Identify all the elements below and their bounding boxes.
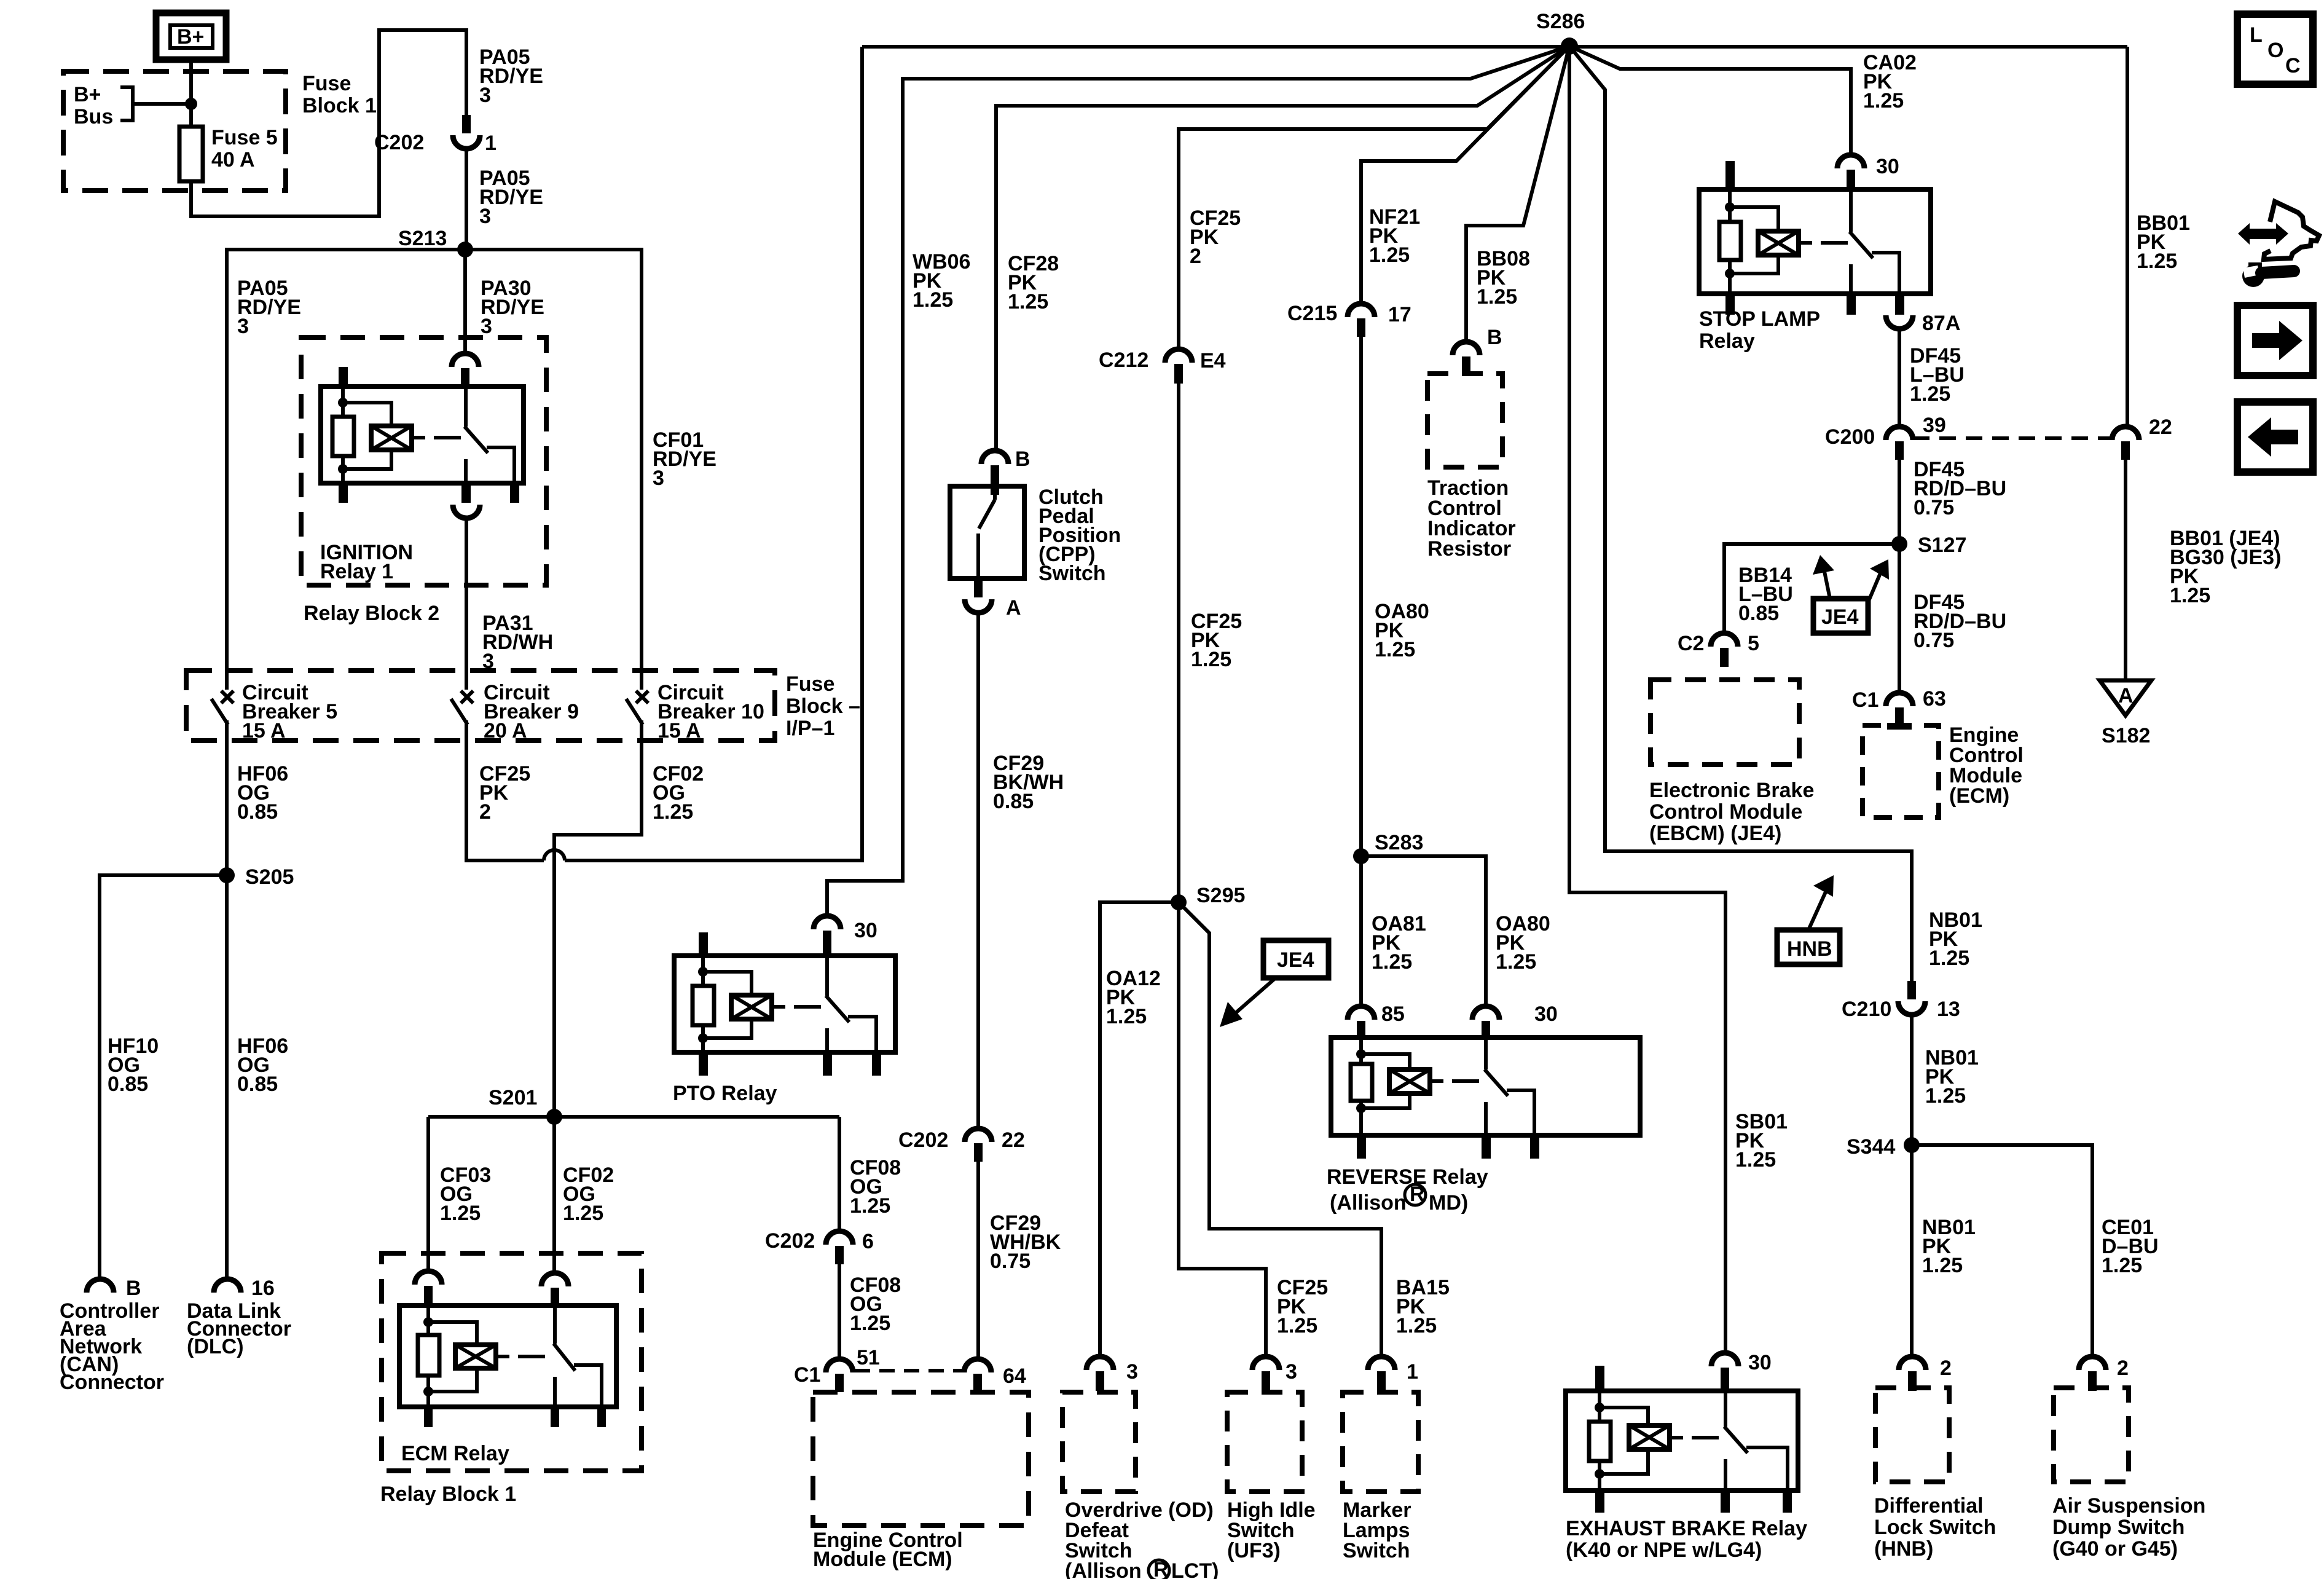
label CF25 PK 2 — [1190, 207, 1241, 268]
fuse F5 — [179, 127, 203, 181]
svg-text:2: 2 — [2117, 1357, 2129, 1380]
svg-text:2: 2 — [479, 800, 491, 824]
wire DF45 C200 to S127 — [1898, 460, 1901, 544]
label SB01 PK 1.25 — [1735, 1110, 1788, 1171]
Air Suspension Dump Switch (G40 or G45) label — [2052, 1494, 2205, 1561]
connector C200 pin 39 — [1825, 414, 1946, 460]
svg-text:3: 3 — [237, 315, 249, 338]
splice symbol S182 — [2100, 680, 2151, 747]
B+ Bus bracket — [120, 87, 191, 120]
ECM relay coil circuit — [418, 1305, 477, 1407]
exhaust relay coil circuit — [1589, 1391, 1648, 1490]
circuit breaker 5 — [211, 674, 234, 741]
svg-text:C: C — [2285, 54, 2301, 77]
connector C1 pin 64 — [964, 1359, 1026, 1392]
wire S213 down branch (PA30 to Ignition Relay) — [463, 250, 467, 353]
svg-text:3: 3 — [481, 315, 492, 338]
svg-text:JE4: JE4 — [1277, 948, 1314, 972]
svg-text:1.25: 1.25 — [850, 1194, 890, 1218]
svg-text:C202: C202 — [374, 131, 424, 154]
PTO relay coil top pin (stub) — [699, 932, 708, 958]
svg-text:1.25: 1.25 — [1375, 638, 1415, 661]
node S127 — [1891, 534, 1966, 557]
Fuse Block I/P-1 dashed box — [186, 671, 775, 741]
svg-text:3: 3 — [1286, 1360, 1297, 1384]
svg-text:C215: C215 — [1287, 302, 1337, 325]
connector C2 pin 5 — [1678, 632, 1759, 667]
Fuse Block 1 dashed box — [63, 71, 286, 191]
svg-text:ECM Relay: ECM Relay — [401, 1442, 509, 1465]
svg-text:2: 2 — [1190, 245, 1201, 268]
Electronic Brake Control Module dashed box — [1651, 680, 1799, 765]
svg-text:PTO Relay: PTO Relay — [673, 1082, 777, 1105]
svg-text:Bus: Bus — [74, 105, 113, 128]
relay switch — [465, 387, 514, 483]
exhaust relay actuation dashed line — [1692, 1436, 1725, 1439]
svg-text:51: 51 — [857, 1346, 880, 1369]
label HF06 OG 0.85 (lower) — [237, 1034, 288, 1096]
node S295 — [1171, 884, 1245, 910]
svg-text:22: 22 — [1002, 1128, 1025, 1152]
wire CF29 CPP-A to C202-22 — [976, 613, 980, 1128]
svg-text:C2: C2 — [1678, 632, 1704, 655]
label BA15 PK 1.25 — [1396, 1276, 1450, 1337]
label BB01 (JE4) BG30 (JE3) PK 1.25 — [2170, 527, 2281, 607]
wire BB08 S286 to traction resistor — [1466, 46, 1569, 342]
label CF25 PK 2 (below breaker 9) — [479, 762, 530, 824]
svg-text:Control Module: Control Module — [1649, 800, 1802, 824]
svg-text:A: A — [2118, 684, 2134, 707]
wire HF10 S205 to CAN connector — [100, 875, 227, 1278]
Fuse Block - I/P-1 label — [786, 672, 860, 740]
reverse relay connector 30 — [1472, 1002, 1558, 1039]
svg-text:S127: S127 — [1918, 534, 1966, 557]
node junction B+ bus — [185, 98, 197, 110]
wire CF02 breaker10 to S201 — [554, 741, 642, 1117]
svg-text:1.25: 1.25 — [1477, 285, 1517, 309]
wire fuse to C202 pin 1 (PA05) — [191, 30, 466, 216]
JE4 callout (upper) — [1813, 555, 1889, 633]
label CA02 PK 1.25 — [1863, 51, 1917, 112]
svg-text:1.25: 1.25 — [1922, 1254, 1963, 1277]
svg-text:S295: S295 — [1196, 884, 1245, 907]
Circuit Breaker 9 20 A label — [484, 681, 579, 742]
label CF08 OG 1.25 — [850, 1156, 901, 1218]
svg-text:13: 13 — [1937, 998, 1960, 1021]
Fuse 5 40 A label — [211, 126, 278, 171]
Ignition Relay input connector (switch side) — [452, 353, 479, 387]
svg-text:0.85: 0.85 — [108, 1073, 148, 1096]
svg-text:JE4: JE4 — [1821, 605, 1859, 629]
svg-text:1.25: 1.25 — [913, 288, 953, 312]
svg-text:A: A — [1006, 596, 1021, 620]
wire HF06 S205 to DLC — [225, 875, 229, 1278]
air suspension dump switch connector 2 — [2079, 1357, 2129, 1391]
label CF25 PK 1.25 — [1191, 610, 1242, 671]
wire S213 left branch (PA05 to Circuit Breaker 5) — [227, 250, 465, 674]
connector C200 pin 22 — [2112, 415, 2172, 460]
DLC connector pin 16 — [214, 1277, 275, 1300]
wire CA02 S286 to stop lamp relay 30 — [1569, 46, 1851, 155]
connector C1 pin 51 — [794, 1346, 880, 1392]
svg-text:64: 64 — [1003, 1364, 1026, 1388]
svg-text:20 A: 20 A — [484, 719, 527, 742]
svg-text:R: R — [1410, 1183, 1425, 1206]
svg-text:Block 1: Block 1 — [302, 94, 377, 117]
PTO relay coil winding symbol — [731, 995, 785, 1019]
STOP LAMP Relay box — [1699, 189, 1931, 294]
relay coil top pin (stub) — [339, 367, 348, 389]
relay second output pin (stub) — [510, 481, 519, 503]
svg-text:Relay Block 2: Relay Block 2 — [304, 602, 439, 625]
REVERSE Relay box — [1331, 1038, 1640, 1135]
dashed wire C200-39 to pin 22 — [1913, 436, 2111, 440]
svg-text:L: L — [2250, 23, 2263, 47]
relay coil bottom pin (stub) — [339, 481, 348, 503]
svg-text:S283: S283 — [1375, 831, 1423, 854]
node S283 — [1353, 831, 1423, 864]
wire OA81 S283 to reverse relay 85 — [1359, 856, 1363, 1006]
label NB01 PK 1.25 — [1929, 908, 1982, 970]
svg-text:15 A: 15 A — [242, 719, 286, 742]
Marker Lamps Switch dashed box — [1343, 1392, 1418, 1492]
ECM pin T-bar — [1887, 723, 1912, 730]
label BB14 L-BU 0.85 — [1738, 564, 1793, 625]
svg-text:I/P–1: I/P–1 — [786, 717, 834, 740]
svg-text:3: 3 — [1126, 1360, 1138, 1384]
Relay Block 1 dashed box — [382, 1253, 642, 1471]
svg-text:0.85: 0.85 — [1738, 602, 1779, 625]
svg-text:(ECM): (ECM) — [1949, 784, 2009, 808]
svg-text:Connector: Connector — [60, 1371, 164, 1394]
svg-text:B: B — [1487, 326, 1502, 349]
svg-text:Switch: Switch — [1343, 1539, 1410, 1562]
svg-text:E4: E4 — [1200, 349, 1226, 372]
ECM relay actuation dashed line — [518, 1355, 551, 1358]
reverse relay coil winding symbol — [1389, 1069, 1443, 1093]
svg-text:(G40 or G45): (G40 or G45) — [2052, 1537, 2178, 1561]
marker lamps switch connector 1 — [1368, 1357, 1418, 1391]
EXHAUST BRAKE Relay label — [1566, 1517, 1807, 1562]
svg-text:Resistor: Resistor — [1427, 537, 1511, 561]
svg-text:30: 30 — [1748, 1351, 1772, 1374]
svg-text:(EBCM) (JE4): (EBCM) (JE4) — [1649, 822, 1781, 845]
wire CF03 S201 to ECM relay coil — [426, 1117, 430, 1271]
IGNITION Relay 1 label — [320, 541, 413, 583]
node S205 — [219, 865, 294, 889]
JE4 callout (lower) — [1220, 940, 1329, 1027]
wire CF02 S201 to ECM relay switch — [552, 1117, 556, 1273]
svg-text:S205: S205 — [245, 865, 294, 889]
label CF03 OG 1.25 — [440, 1164, 491, 1225]
relay switch output pin — [461, 481, 471, 503]
PTO Relay box — [674, 956, 895, 1052]
CPP switch blade — [978, 486, 995, 578]
Relay Block 2 dashed box — [301, 337, 546, 585]
wire DF45 S127 to ECM C1-63 — [1898, 544, 1901, 693]
wire SB01 S286 to exhaust brake relay — [1569, 46, 1725, 1353]
EXHAUST BRAKE Relay box — [1566, 1391, 1798, 1490]
label HF10 OG 0.85 — [108, 1034, 159, 1096]
svg-text:EXHAUST BRAKE Relay: EXHAUST BRAKE Relay — [1566, 1517, 1807, 1540]
svg-text:Dump Switch: Dump Switch — [2052, 1516, 2185, 1539]
back navigation icon — [2237, 402, 2313, 472]
svg-text:C202: C202 — [765, 1229, 815, 1253]
connector C1 pin 63 — [1852, 687, 1946, 725]
svg-text:Electronic Brake: Electronic Brake — [1649, 779, 1814, 802]
svg-text:1.25: 1.25 — [2137, 250, 2177, 273]
wire CE01 S344 to air suspension dump switch — [1912, 1145, 2092, 1357]
svg-text:Air Suspension: Air Suspension — [2052, 1494, 2205, 1518]
svg-text:C210: C210 — [1842, 998, 1891, 1021]
ECM Relay box — [399, 1305, 616, 1407]
OD defeat switch connector 3 — [1086, 1357, 1138, 1391]
label NB01 PK 1.25 (lower) — [1922, 1216, 1976, 1277]
Clutch Pedal Position (CPP) Switch label — [1038, 486, 1121, 585]
high idle switch connector 3 — [1252, 1357, 1297, 1391]
svg-text:0.85: 0.85 — [993, 790, 1034, 813]
ECM relay switch — [554, 1305, 602, 1407]
wire NB01 S344 to differential lock switch — [1910, 1145, 1914, 1357]
svg-text:1.25: 1.25 — [850, 1312, 890, 1335]
svg-text:1: 1 — [1407, 1360, 1418, 1384]
Traction Control Indicator Resistor dashed box — [1427, 374, 1502, 467]
svg-text:1.25: 1.25 — [1863, 89, 1904, 112]
connector C215 pin 17 — [1287, 302, 1411, 337]
Differential Lock Switch (HNB) label — [1874, 1494, 1996, 1561]
wire CF25 S286 to C212 — [1179, 46, 1569, 349]
label DF45 RD/D-BU 0.75 (lower) — [1914, 591, 2006, 652]
svg-text:16: 16 — [251, 1277, 275, 1300]
svg-text:6: 6 — [862, 1230, 874, 1253]
svg-text:1.25: 1.25 — [1910, 382, 1950, 406]
svg-text:Relay 1: Relay 1 — [320, 560, 393, 583]
svg-text:(K40 or NPE w/LG4): (K40 or NPE w/LG4) — [1566, 1538, 1762, 1562]
svg-text:1.25: 1.25 — [2170, 584, 2210, 607]
Engine Control Module (ECM) label (right) — [1949, 723, 2024, 808]
svg-text:R: R — [1153, 1558, 1169, 1579]
node S286 — [1536, 10, 1585, 55]
label PA30 RD/YE 3 — [481, 277, 544, 338]
LOC navigation icon — [2237, 14, 2313, 84]
svg-text:1.25: 1.25 — [1929, 947, 1969, 970]
svg-text:(UF3): (UF3) — [1227, 1539, 1281, 1562]
label HF06 OG 0.85 — [237, 762, 288, 824]
wire hop over CF02 vertical — [544, 850, 565, 860]
svg-text:REVERSE Relay: REVERSE Relay — [1327, 1165, 1488, 1189]
CPP switch connector B — [981, 447, 1030, 495]
svg-text:1.25: 1.25 — [1925, 1084, 1966, 1108]
label CF25 PK 1.25 (high idle) — [1277, 1276, 1328, 1337]
svg-text:S213: S213 — [398, 227, 447, 250]
label CF02 OG 1.25 (lower) — [563, 1164, 614, 1225]
CPP switch connector A — [965, 578, 1021, 620]
High Idle Switch dashed box — [1227, 1392, 1302, 1492]
svg-text:S344: S344 — [1847, 1135, 1895, 1159]
svg-text:30: 30 — [854, 919, 877, 942]
svg-text:85: 85 — [1381, 1002, 1405, 1026]
Overdrive Defeat Switch dashed box — [1062, 1392, 1136, 1492]
REVERSE Relay label — [1327, 1165, 1488, 1215]
label CF28 PK 1.25 — [1008, 252, 1059, 313]
svg-text:Block –: Block – — [786, 695, 860, 718]
Data Link Connector (DLC) label — [187, 1299, 291, 1358]
Traction Control Indicator Resistor label — [1427, 476, 1516, 561]
svg-text:0.75: 0.75 — [990, 1250, 1030, 1273]
circuit breaker 9 — [451, 674, 473, 741]
Air Suspension Dump Switch dashed box — [2054, 1388, 2129, 1482]
wire CF25 C212 to S295 — [1177, 384, 1180, 902]
main power bus wire (top horizontal) — [862, 45, 2127, 49]
svg-text:C200: C200 — [1825, 425, 1875, 449]
svg-text:Fuse: Fuse — [786, 672, 834, 696]
svg-text:Relay Block 1: Relay Block 1 — [380, 1483, 516, 1506]
connector C212 pin E4 — [1099, 348, 1226, 384]
label NF21 PK 1.25 — [1369, 205, 1420, 267]
svg-text:1.25: 1.25 — [1396, 1314, 1437, 1337]
svg-text:Differential: Differential — [1874, 1494, 1984, 1518]
Fuse Block 1 label — [302, 72, 377, 117]
forward navigation icon — [2237, 305, 2313, 376]
svg-text:Fuse 5: Fuse 5 — [211, 126, 278, 149]
differential lock switch connector 2 — [1899, 1357, 1952, 1391]
node S201 — [489, 1086, 562, 1125]
wire CF25 breaker9 to top bus — [466, 47, 862, 860]
relay output connector (to PA31) — [453, 505, 480, 518]
wire CF29 C202-22 to ECM C1-64 — [976, 1162, 980, 1359]
STOP LAMP Relay label — [1699, 307, 1820, 353]
wire HF06 breaker5 to S205 — [225, 741, 229, 875]
Controller Area Network (CAN) Connector label — [60, 1299, 164, 1394]
Circuit Breaker 10 15 A label — [658, 681, 764, 742]
svg-text:1.25: 1.25 — [1372, 950, 1412, 974]
svg-text:15 A: 15 A — [658, 719, 701, 742]
label OA12 PK 1.25 — [1106, 967, 1161, 1028]
svg-text:17: 17 — [1388, 303, 1411, 326]
svg-text:40 A: 40 A — [211, 148, 255, 171]
stop lamp relay coil top pin (stub) — [1725, 161, 1735, 192]
stop lamp relay connector 30 — [1837, 155, 1899, 189]
svg-text:0.75: 0.75 — [1914, 496, 1954, 519]
exhaust relay coil winding symbol — [1629, 1425, 1683, 1449]
wire CF08 C202-6 to ECM C1-51 — [838, 1264, 841, 1359]
label CF29 BK/WH 0.85 — [993, 752, 1064, 813]
svg-text:0.75: 0.75 — [1914, 629, 1954, 652]
wire BB14 S127 to EBCM C2-5 — [1724, 544, 1899, 633]
svg-text:B: B — [1015, 447, 1030, 471]
svg-text:1.25: 1.25 — [1496, 950, 1536, 974]
svg-text:C202: C202 — [898, 1128, 948, 1152]
wire CF08 S201 to C202-6 — [838, 1117, 841, 1231]
wire OA12 S295 to OD defeat switch — [1100, 902, 1179, 1357]
wire WB06 S286 to PTO relay 30 — [827, 46, 1569, 916]
wire OA80 C215 to S283 — [1359, 337, 1363, 856]
connector C202 pin 22 — [898, 1128, 1025, 1162]
label PA31 RD/WH 3 — [482, 612, 553, 673]
svg-text:1.25: 1.25 — [1735, 1148, 1776, 1171]
svg-text:C212: C212 — [1099, 348, 1148, 372]
stop lamp relay output connector 87A — [1886, 291, 1960, 335]
svg-text:Relay: Relay — [1699, 329, 1755, 353]
svg-text:0.85: 0.85 — [237, 1073, 278, 1096]
wire PA31 relay to Circuit Breaker 9 — [465, 518, 468, 674]
svg-text:1.25: 1.25 — [2102, 1254, 2142, 1277]
stop lamp relay coil winding symbol — [1758, 231, 1812, 255]
Differential Lock Switch dashed box — [1875, 1388, 1949, 1482]
PTO relay switch — [826, 956, 876, 1052]
wire OA80 S283 to reverse relay 30 — [1361, 856, 1486, 1006]
svg-text:1.25: 1.25 — [653, 800, 693, 824]
wire S213 right branch (CF01 to Circuit Breaker 10) — [465, 250, 642, 674]
svg-text:2: 2 — [1940, 1357, 1952, 1380]
wire BB01 top bus to C200 pin 22 — [2126, 47, 2129, 427]
svg-text:87A: 87A — [1922, 312, 1960, 335]
label CF08 OG 1.25 (lower) — [850, 1274, 901, 1335]
wire CF25 S295 to high idle switch — [1179, 902, 1266, 1357]
svg-text:Lock Switch: Lock Switch — [1874, 1516, 1996, 1539]
label DF45 L-BU 1.25 — [1910, 344, 1965, 406]
svg-text:1.25: 1.25 — [440, 1202, 481, 1225]
svg-text:22: 22 — [2149, 415, 2172, 439]
B+ Bus label — [74, 83, 113, 128]
node S213 — [398, 227, 473, 258]
relay coil winding symbol — [371, 426, 425, 450]
Engine Control Module dashed box — [813, 1392, 1029, 1526]
wire C202-1 to S213 (PA05) — [465, 149, 468, 250]
svg-text:30: 30 — [1876, 155, 1899, 178]
traction resistor connector B — [1453, 326, 1502, 375]
svg-text:Fuse: Fuse — [302, 72, 351, 95]
svg-text:S201: S201 — [489, 1086, 537, 1109]
Clutch Pedal Position switch box — [950, 486, 1024, 578]
ECM relay switch input connector — [541, 1273, 568, 1307]
label PA05 RD/YE 3 (below C202) — [479, 167, 543, 228]
svg-text:C1: C1 — [794, 1363, 820, 1387]
svg-text:Module (ECM): Module (ECM) — [813, 1548, 952, 1571]
ECM relay coil input connector — [415, 1271, 442, 1305]
wire BB01/BG30 pin22 to S182 — [2124, 460, 2127, 679]
svg-text:(Allison: (Allison — [1330, 1191, 1407, 1215]
wire NB01 C210 to S344 — [1910, 1015, 1914, 1145]
svg-text:30: 30 — [1534, 1002, 1558, 1026]
svg-text:39: 39 — [1923, 414, 1946, 437]
CAN connector pin B — [87, 1277, 141, 1300]
svg-text:S182: S182 — [2102, 724, 2150, 747]
exhaust relay bottom pins — [1595, 1488, 1792, 1513]
wire NF21 S286 to C215 — [1361, 46, 1569, 304]
wire NB01 S286 to C210 — [1569, 46, 1912, 981]
Overdrive (OD) Defeat Switch label — [1065, 1498, 1219, 1579]
label CE01 D-BU 1.25 — [2102, 1216, 2159, 1277]
label OA80 PK 1.25 — [1375, 600, 1429, 661]
reverse relay switch — [1485, 1038, 1534, 1135]
PTO relay coil circuit — [693, 956, 752, 1052]
label BB01 PK 1.25 — [2137, 211, 2190, 273]
svg-text:MD): MD) — [1429, 1191, 1468, 1215]
Electronic Brake Control Module (EBCM) (JE4) label — [1649, 779, 1814, 845]
dashed wire C1-51 to pin 64 — [855, 1369, 964, 1372]
svg-text:1.25: 1.25 — [1008, 290, 1048, 313]
S201 horizontal bus — [428, 1115, 839, 1119]
label OA81 PK 1.25 — [1372, 912, 1426, 974]
wire DF45 87A to C200 — [1898, 329, 1901, 427]
svg-text:LCT): LCT) — [1171, 1559, 1219, 1579]
svg-text:1.25: 1.25 — [1191, 648, 1231, 671]
svg-text:5: 5 — [1748, 632, 1759, 655]
svg-text:1.25: 1.25 — [563, 1202, 603, 1225]
Engine Control Module dashed box (right) — [1863, 725, 1939, 817]
node S344 — [1847, 1135, 1920, 1159]
